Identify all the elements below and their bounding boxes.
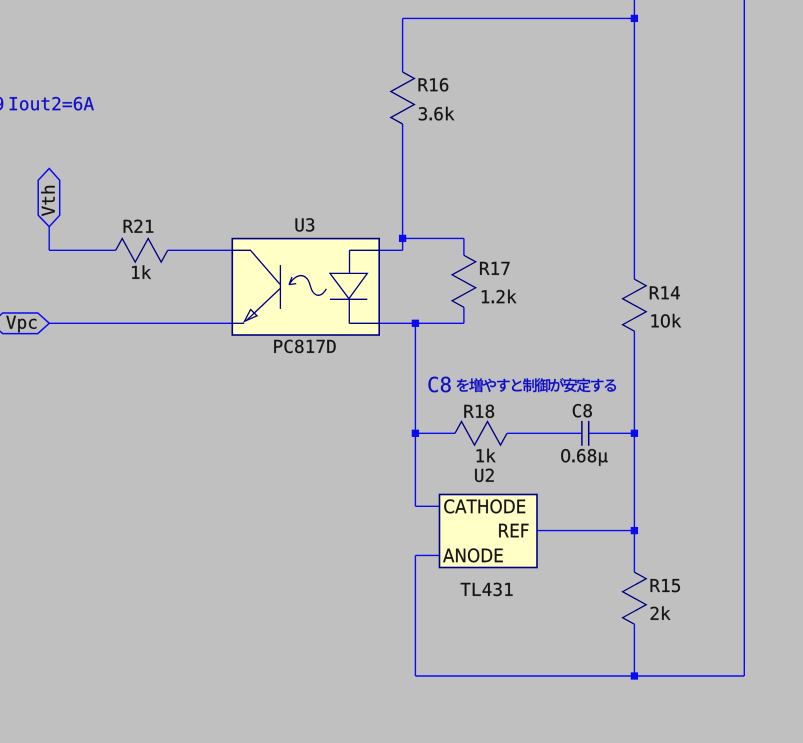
wire Vth to R21 <box>48 227 50 251</box>
node junction opto bottom <box>412 320 419 327</box>
wire REF stub <box>537 530 634 532</box>
node junction top <box>631 15 638 22</box>
U2 pin ANODE <box>443 548 503 562</box>
value label TL431 <box>461 583 513 596</box>
wire opto bottom-right stub <box>379 322 464 324</box>
U2 pin REF <box>499 524 528 538</box>
wire right vertical rail <box>743 0 745 676</box>
label C8 <box>573 404 592 417</box>
wire bottom horizontal <box>415 675 744 677</box>
label U3 <box>295 218 314 231</box>
U3 LED diode <box>330 250 379 323</box>
wire opto top-right stub <box>379 249 402 251</box>
U2 pin CATHODE <box>444 499 525 513</box>
label R18 <box>464 405 494 418</box>
node junction bottom <box>631 672 638 679</box>
wire R16 vertical <box>402 18 404 72</box>
value label 1.2k <box>482 290 517 304</box>
label R14 <box>650 286 680 299</box>
label R16 <box>419 78 449 91</box>
value label 10k <box>651 314 681 328</box>
node junction C8 right <box>631 430 638 437</box>
node Iout2 annotation <box>0 97 3 111</box>
node Vth flag <box>38 169 60 227</box>
wire anode stub <box>415 554 439 556</box>
resistor R15 <box>623 572 647 624</box>
label R15 <box>651 579 680 592</box>
node junction R16/R17 <box>399 235 406 242</box>
U3 light arrow <box>289 276 326 296</box>
optocoupler U3 body <box>232 239 379 335</box>
node junction R18 left <box>412 430 419 437</box>
node C8 annotation <box>428 377 616 393</box>
wire Vpc to opto <box>49 322 232 324</box>
resistor R18 <box>455 422 507 446</box>
resistor R14 <box>623 279 647 331</box>
label U2 <box>475 469 494 482</box>
wire mid vertical rail <box>633 0 635 279</box>
shunt regulator U2 body <box>440 495 538 568</box>
node Vpc flag <box>0 313 49 334</box>
value label 1k (R18) <box>477 449 496 463</box>
wire down from opto to R18 node <box>414 323 416 506</box>
resistor R16 <box>391 72 415 124</box>
resistor R17 <box>452 255 476 307</box>
label R17 <box>480 262 510 275</box>
node junction REF <box>631 527 638 534</box>
wire R18 row <box>415 432 455 434</box>
resistor R21 <box>116 239 168 263</box>
wire junction to R17 <box>403 237 464 239</box>
label R21 <box>124 220 154 233</box>
wire cathode stub <box>415 505 439 507</box>
value label 3.6k <box>419 107 455 121</box>
value label 2k <box>651 606 671 620</box>
capacitor C8 <box>581 421 583 446</box>
value label PC817D <box>274 340 335 353</box>
wire top horizontal <box>403 17 635 19</box>
value label 0.68u <box>561 449 607 466</box>
U3 phototransistor <box>232 250 280 323</box>
value label 1k (R21) <box>132 265 151 279</box>
